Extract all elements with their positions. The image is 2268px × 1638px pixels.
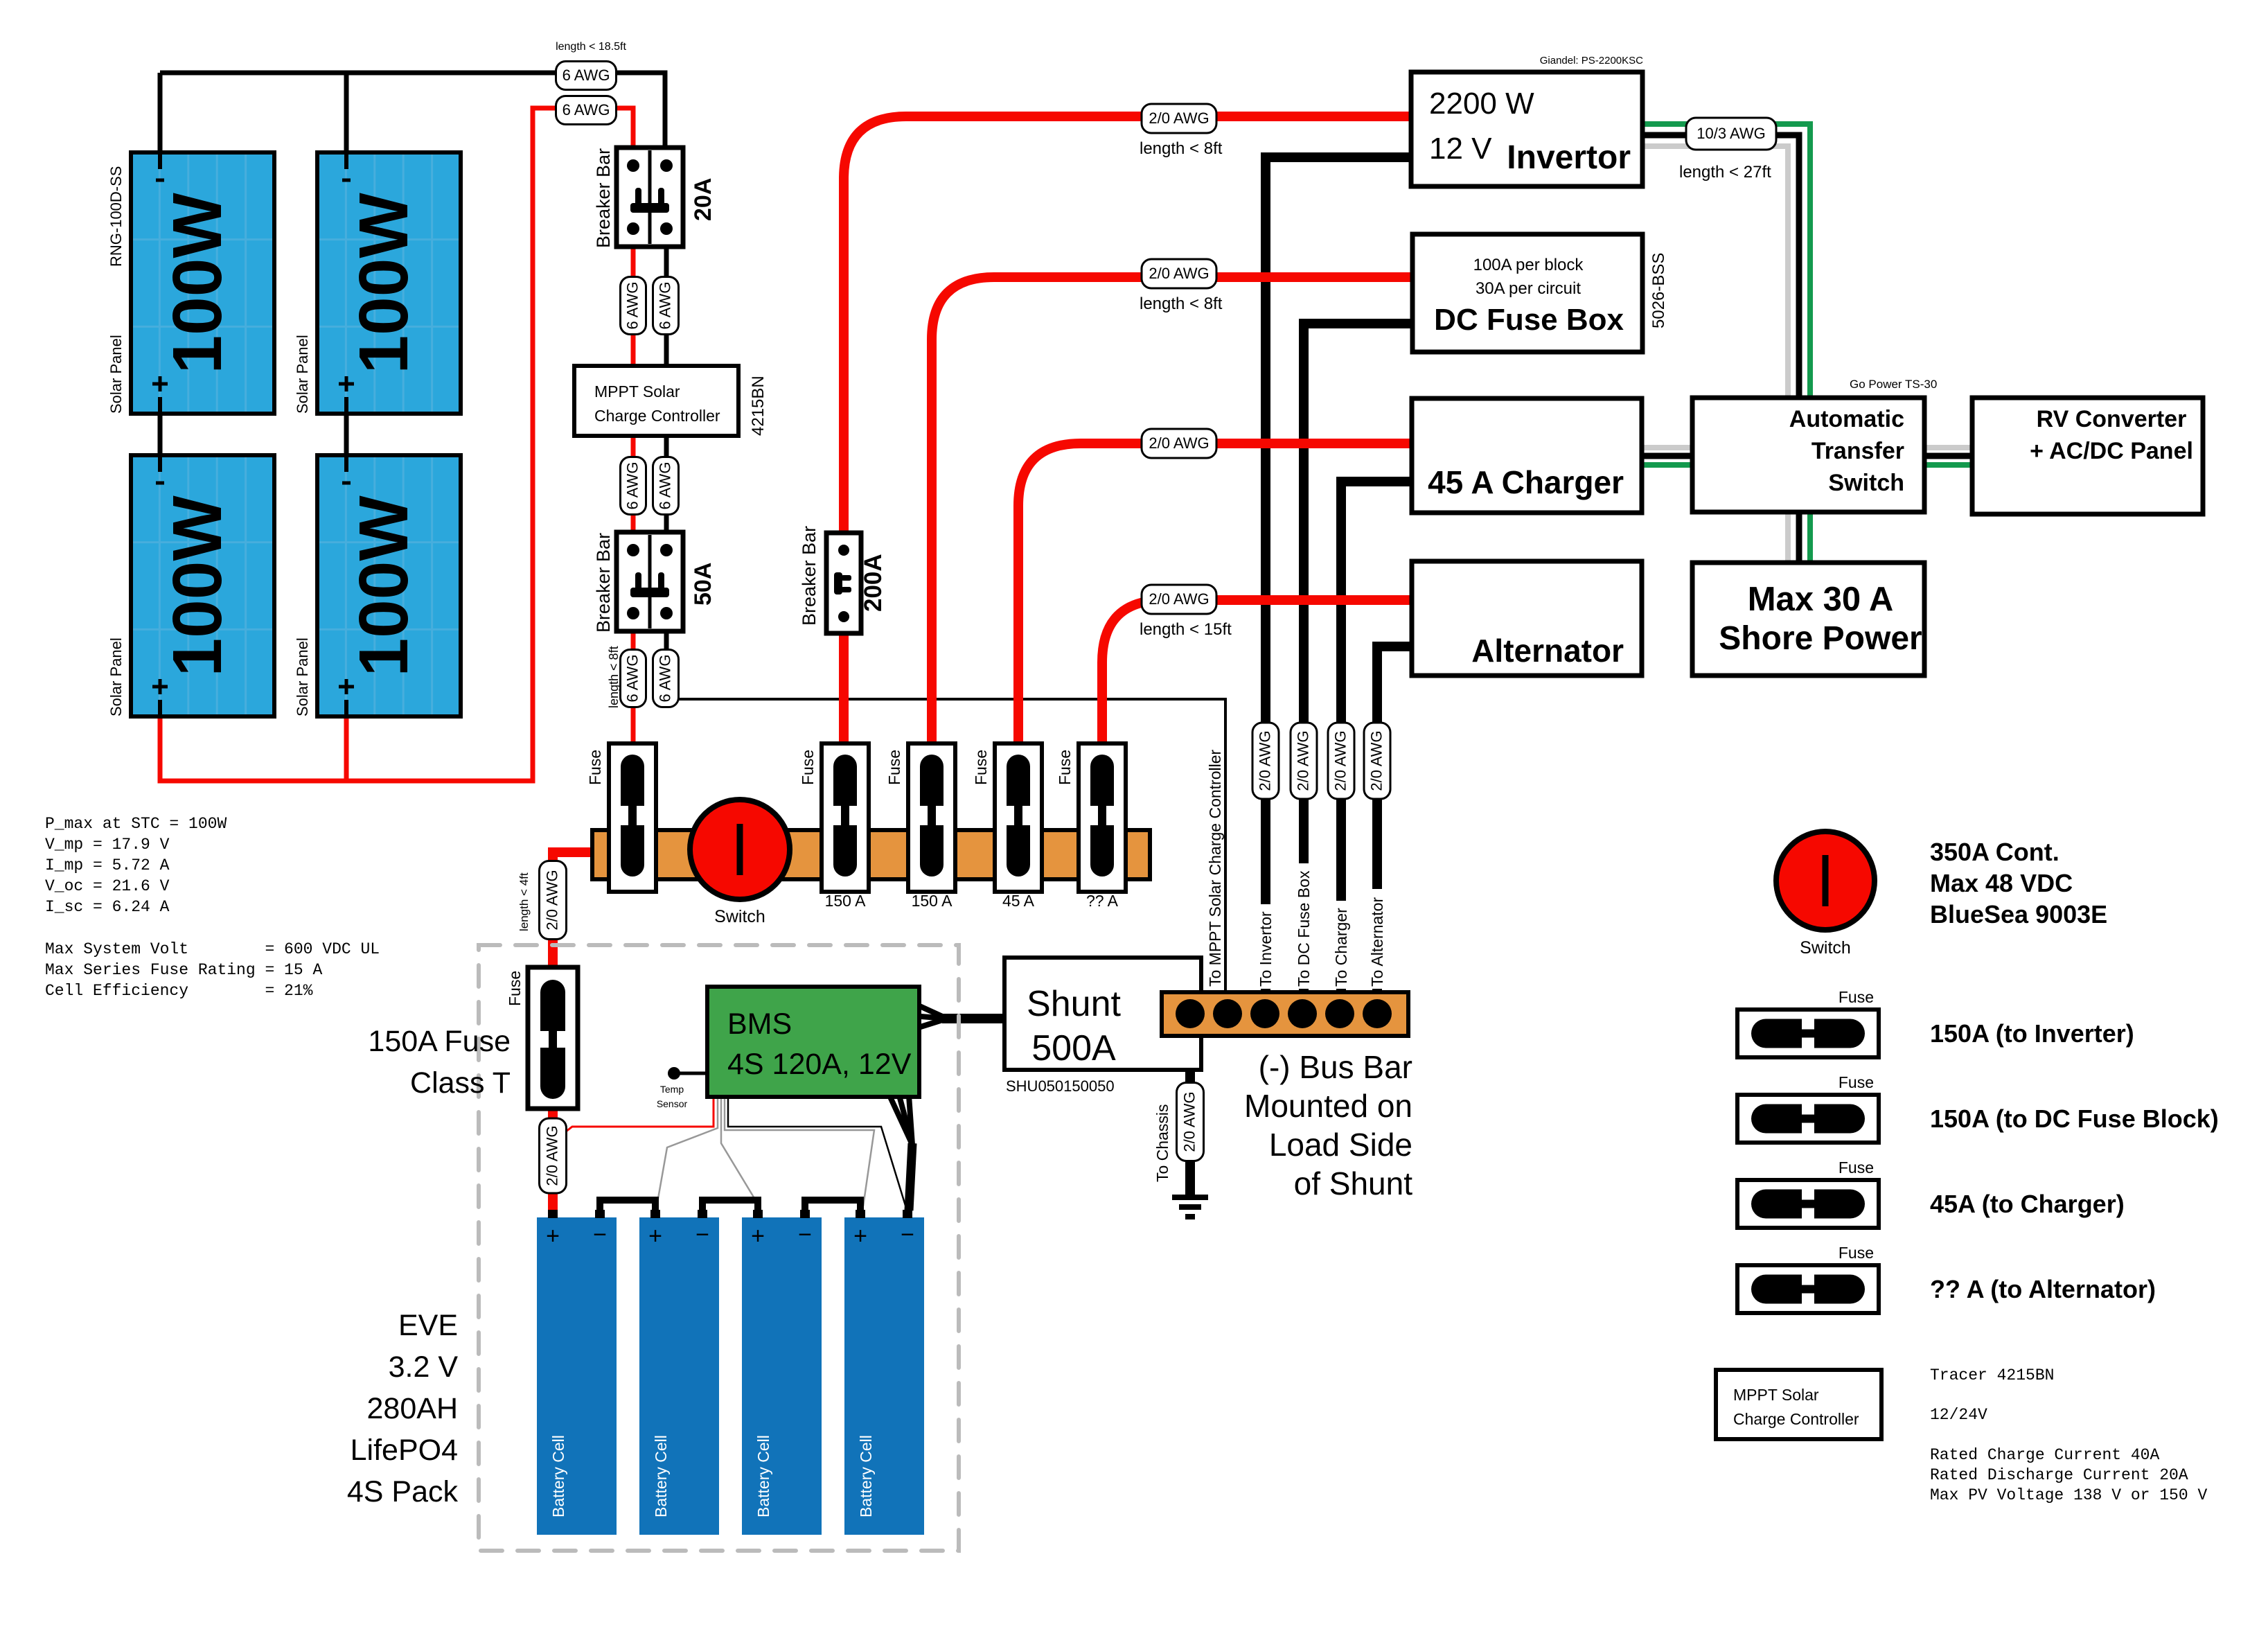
svg-text:Temp: Temp [660, 1084, 684, 1095]
svg-text:length < 4ft: length < 4ft [517, 872, 531, 931]
svg-text:30A per circuit: 30A per circuit [1476, 279, 1581, 298]
svg-text:150 A: 150 A [912, 892, 953, 910]
svg-text:−: − [593, 1222, 607, 1248]
svg-text:MPPT Solar: MPPT Solar [594, 382, 680, 400]
svg-text:100W: 100W [345, 193, 423, 374]
svg-text:100W: 100W [159, 193, 236, 374]
svg-text:Max Series Fuse Rating = 15 A: Max Series Fuse Rating = 15 A [45, 961, 322, 979]
svg-text:Solar Panel: Solar Panel [294, 335, 311, 414]
svg-text:10/3 AWG: 10/3 AWG [1696, 125, 1765, 142]
svg-text:Cell Efficiency = 21%: Cell Efficiency = 21% [45, 982, 313, 1000]
svg-text:length < 27ft: length < 27ft [1679, 163, 1771, 182]
svg-text:+: + [648, 1223, 662, 1249]
svg-text:To DC Fuse Box: To DC Fuse Box [1295, 870, 1313, 987]
svg-text:MPPT Solar: MPPT Solar [1733, 1386, 1819, 1404]
svg-text:To MPPT Solar Charge Controlle: To MPPT Solar Charge Controller [1206, 750, 1224, 987]
svg-text:6 AWG: 6 AWG [623, 462, 641, 510]
svg-text:Automatic: Automatic [1789, 406, 1904, 432]
svg-text:350A Cont.: 350A Cont. [1930, 838, 2059, 866]
svg-text:Fuse: Fuse [1839, 988, 1874, 1006]
svg-text:Breaker Bar: Breaker Bar [593, 533, 614, 633]
svg-text:2/0 AWG: 2/0 AWG [543, 1125, 560, 1186]
svg-text:6 AWG: 6 AWG [656, 462, 673, 510]
svg-text:Solar Panel: Solar Panel [107, 637, 125, 716]
svg-text:Battery Cell: Battery Cell [652, 1435, 670, 1517]
svg-text:Go Power TS-30: Go Power TS-30 [1850, 378, 1937, 391]
svg-text:+ AC/DC Panel: + AC/DC Panel [2030, 438, 2193, 464]
svg-text:Rated Charge Current 40A: Rated Charge Current 40A [1930, 1446, 2159, 1464]
svg-text:Breaker Bar: Breaker Bar [593, 148, 614, 248]
svg-text:6 AWG: 6 AWG [623, 655, 641, 703]
svg-text:Battery Cell: Battery Cell [754, 1435, 772, 1517]
svg-text:100A per block: 100A per block [1473, 256, 1584, 274]
svg-text:Fuse: Fuse [1839, 1073, 1874, 1091]
svg-text:length < 15ft: length < 15ft [1140, 620, 1232, 639]
svg-text:DC Fuse Box: DC Fuse Box [1434, 303, 1624, 337]
svg-text:50A: 50A [690, 563, 716, 606]
svg-text:(-) Bus Bar: (-) Bus Bar [1259, 1049, 1412, 1085]
svg-text:−: − [798, 1222, 812, 1248]
svg-text:150A Fuse: 150A Fuse [368, 1025, 511, 1058]
svg-text:2/0 AWG: 2/0 AWG [1256, 730, 1273, 791]
svg-text:280AH: 280AH [367, 1392, 458, 1425]
svg-text:Shore Power: Shore Power [1719, 620, 1922, 657]
svg-text:EVE: EVE [398, 1309, 458, 1342]
svg-text:Transfer: Transfer [1811, 438, 1904, 464]
svg-text:6 AWG: 6 AWG [562, 67, 610, 84]
svg-text:45A (to Charger): 45A (to Charger) [1930, 1190, 2125, 1218]
svg-text:LifePO4: LifePO4 [351, 1434, 458, 1467]
svg-text:6 AWG: 6 AWG [656, 655, 673, 703]
svg-text:RNG-100D-SS: RNG-100D-SS [107, 166, 125, 267]
svg-text:length < 18.5ft: length < 18.5ft [556, 41, 626, 53]
svg-text:2/0 AWG: 2/0 AWG [1149, 590, 1209, 608]
svg-text:45 A: 45 A [1002, 892, 1035, 910]
svg-text:Sensor: Sensor [657, 1098, 688, 1109]
svg-text:3.2 V: 3.2 V [389, 1350, 459, 1384]
svg-text:−: − [901, 1222, 914, 1248]
svg-text:+: + [853, 1223, 867, 1249]
svg-text:Rated Discharge Current 20A: Rated Discharge Current 20A [1930, 1466, 2188, 1484]
svg-text:6 AWG: 6 AWG [623, 282, 641, 330]
svg-text:Max 30 A: Max 30 A [1748, 581, 1894, 618]
svg-text:I_mp = 5.72 A: I_mp = 5.72 A [45, 856, 170, 874]
svg-text:SHU050150050: SHU050150050 [1006, 1077, 1115, 1095]
svg-text:Mounted on: Mounted on [1244, 1088, 1412, 1124]
svg-text:2/0 AWG: 2/0 AWG [1149, 434, 1209, 452]
svg-text:Battery Cell: Battery Cell [857, 1435, 875, 1517]
svg-text:V_oc = 21.6 V: V_oc = 21.6 V [45, 877, 170, 895]
svg-text:2/0 AWG: 2/0 AWG [1149, 265, 1209, 282]
svg-text:4215BN: 4215BN [749, 376, 768, 436]
svg-text:length < 8ft: length < 8ft [607, 646, 621, 708]
svg-text:Tracer 4215BN: Tracer 4215BN [1930, 1366, 2054, 1384]
svg-text:12/24V: 12/24V [1930, 1406, 1987, 1424]
svg-text:Fuse: Fuse [885, 750, 903, 785]
svg-text:Battery Cell: Battery Cell [549, 1435, 567, 1517]
svg-text:45 A Charger: 45 A Charger [1428, 464, 1624, 500]
svg-text:Load Side: Load Side [1269, 1127, 1412, 1163]
svg-text:150 A: 150 A [825, 892, 866, 910]
svg-text:Shunt: Shunt [1027, 984, 1121, 1024]
svg-text:2/0 AWG: 2/0 AWG [1331, 730, 1349, 791]
svg-text:100W: 100W [159, 495, 236, 677]
svg-text:To Charger: To Charger [1332, 908, 1350, 987]
svg-text:Max 48 VDC: Max 48 VDC [1930, 869, 2073, 897]
svg-text:+: + [546, 1223, 560, 1249]
svg-text:Solar Panel: Solar Panel [107, 335, 125, 414]
svg-text:6 AWG: 6 AWG [562, 101, 610, 118]
svg-text:150A (to DC Fuse Block): 150A (to DC Fuse Block) [1930, 1104, 2219, 1133]
svg-text:length < 8ft: length < 8ft [1140, 294, 1223, 313]
svg-text:length < 8ft: length < 8ft [1140, 139, 1223, 158]
svg-text:Alternator: Alternator [1471, 633, 1624, 669]
svg-text:RV Converter: RV Converter [2037, 406, 2187, 432]
svg-text:Fuse: Fuse [506, 971, 524, 1006]
svg-text:2/0 AWG: 2/0 AWG [1149, 109, 1209, 127]
svg-text:of Shunt: of Shunt [1294, 1165, 1413, 1201]
svg-text:2/0 AWG: 2/0 AWG [543, 870, 560, 930]
svg-text:200A: 200A [860, 554, 887, 612]
svg-text:5026-BSS: 5026-BSS [1649, 253, 1668, 328]
svg-text:Breaker Bar: Breaker Bar [799, 526, 820, 626]
svg-text:Switch: Switch [1800, 938, 1851, 958]
svg-text:Charge Controller: Charge Controller [594, 407, 720, 425]
svg-text:150A (to Inverter): 150A (to Inverter) [1930, 1019, 2134, 1048]
svg-text:Fuse: Fuse [586, 750, 604, 785]
svg-text:Giandel: PS-2200KSC: Giandel: PS-2200KSC [1540, 55, 1643, 67]
svg-text:Solar Panel: Solar Panel [294, 637, 311, 716]
svg-text:2/0 AWG: 2/0 AWG [1294, 730, 1311, 791]
svg-text:BlueSea 9003E: BlueSea 9003E [1930, 900, 2107, 928]
svg-text:20A: 20A [690, 178, 716, 221]
svg-text:100W: 100W [345, 495, 423, 677]
svg-text:+: + [751, 1223, 765, 1249]
svg-text:2/0 AWG: 2/0 AWG [1367, 730, 1385, 791]
svg-text:Fuse: Fuse [1056, 750, 1074, 785]
svg-text:I_sc = 6.24 A: I_sc = 6.24 A [45, 898, 170, 916]
svg-text:Max System Volt = 600 V: Max System Volt = 600 VDC UL [45, 940, 380, 958]
svg-text:Class T: Class T [410, 1066, 511, 1100]
svg-text:?? A: ?? A [1086, 892, 1119, 910]
svg-text:To Chassis: To Chassis [1153, 1104, 1171, 1182]
svg-text:Fuse: Fuse [972, 750, 990, 785]
svg-text:Fuse: Fuse [1839, 1244, 1874, 1262]
svg-text:?? A (to Alternator): ?? A (to Alternator) [1930, 1275, 2156, 1303]
svg-text:Fuse: Fuse [799, 750, 817, 785]
svg-text:Invertor: Invertor [1507, 139, 1631, 176]
svg-text:V_mp = 17.9 V: V_mp = 17.9 V [45, 836, 170, 854]
svg-text:To Alternator: To Alternator [1368, 897, 1386, 987]
svg-text:Max PV Voltage 138 V or 150 V: Max PV Voltage 138 V or 150 V [1930, 1486, 2207, 1504]
svg-text:BMS: BMS [727, 1007, 792, 1041]
svg-text:2/0 AWG: 2/0 AWG [1180, 1091, 1198, 1152]
svg-text:500A: 500A [1031, 1028, 1116, 1068]
svg-text:P_max at STC = 100W: P_max at STC = 100W [45, 815, 227, 833]
svg-text:2200 W: 2200 W [1429, 87, 1534, 121]
svg-text:6 AWG: 6 AWG [656, 282, 673, 330]
svg-text:Switch: Switch [1828, 470, 1904, 496]
svg-text:To Invertor: To Invertor [1257, 911, 1275, 987]
svg-text:12 V: 12 V [1429, 132, 1492, 166]
svg-text:Fuse: Fuse [1839, 1159, 1874, 1177]
svg-text:Charge Controller: Charge Controller [1733, 1410, 1859, 1428]
svg-text:Switch: Switch [714, 907, 765, 926]
svg-text:4S 120A, 12V: 4S 120A, 12V [727, 1048, 912, 1081]
svg-text:4S Pack: 4S Pack [347, 1475, 459, 1508]
svg-text:−: − [696, 1222, 709, 1248]
